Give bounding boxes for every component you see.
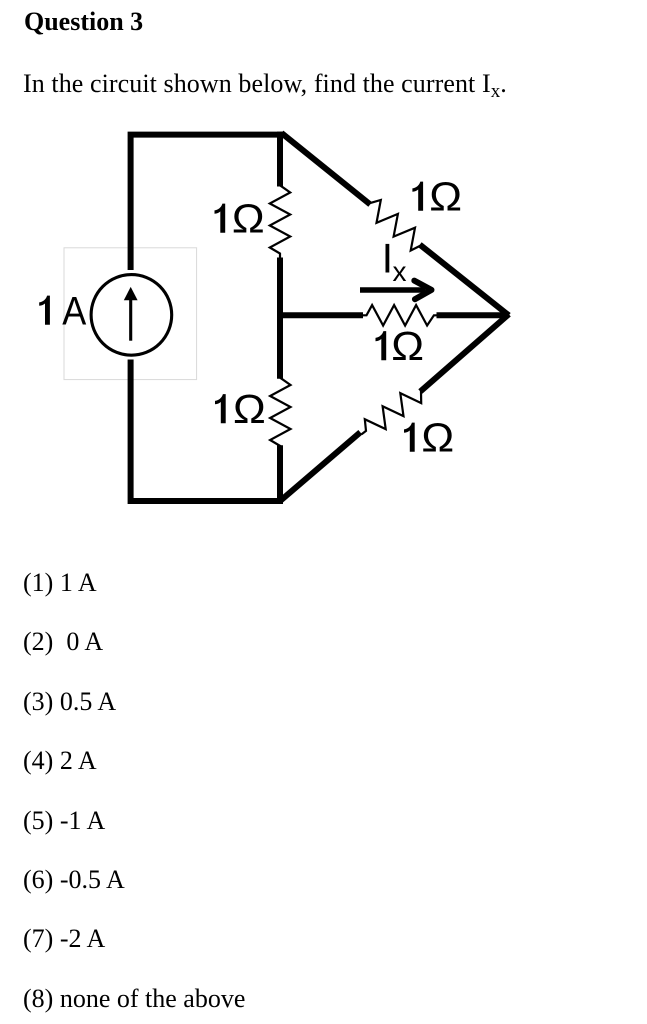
label 1-ohm R1: digit 1 <box>215 204 226 233</box>
current source arrow shaft <box>129 299 132 341</box>
label 1-ohm R2: digit 1 <box>215 394 226 423</box>
Ix current arrow shaft <box>360 287 425 292</box>
wire: middle horizontal left <box>280 312 363 318</box>
svg-text:Ω: Ω <box>232 196 265 241</box>
current source I1 circle <box>91 275 172 356</box>
resistor R4 (1 ohm, top-right diagonal) <box>369 200 421 251</box>
label 1-ohm R4 top right: digit 1 <box>412 182 423 211</box>
wire: top diagonal lower segment to apex <box>420 245 509 316</box>
label 1-ohm R5 bottom right: digit 1 <box>404 423 415 452</box>
label Ix current name: letter I <box>386 244 390 273</box>
svg-text:x: x <box>393 256 407 287</box>
wire: bottom diagonal lower segment <box>280 432 361 501</box>
svg-text:Ω: Ω <box>233 387 266 432</box>
resistor R2 (1 ohm, left vertical lower) <box>270 378 290 451</box>
Ix current arrow head <box>414 281 431 300</box>
svg-text:Ω: Ω <box>421 415 454 460</box>
selection box (faint) around current source <box>64 248 197 380</box>
label 1-ohm R3 middle: digit 1 <box>376 331 387 360</box>
wire: middle vertical upper segment <box>277 132 283 187</box>
wire: left wire lower + bottom wire <box>131 360 283 502</box>
wire: middle vertical lower segment <box>277 445 283 504</box>
answer options <box>23 570 97 596</box>
resistor R3 (1 ohm, middle horizontal) <box>362 305 437 325</box>
svg-text:Ω: Ω <box>391 324 424 369</box>
wire: top diagonal upper segment <box>282 133 371 204</box>
question text <box>23 71 507 97</box>
label 1A (source value): digit 1 <box>39 296 50 325</box>
resistor R1 (1 ohm, left vertical upper) <box>270 185 290 258</box>
wire: top-left loop (top wire + left wire upper) <box>131 135 283 270</box>
svg-text:Ω: Ω <box>429 174 462 219</box>
svg-text:A: A <box>62 290 87 334</box>
current source arrow head <box>124 287 138 300</box>
resistor R5 (1 ohm, bottom-right diagonal) <box>362 391 422 435</box>
title <box>24 9 143 35</box>
wire: bottom diagonal upper segment from apex <box>420 314 509 391</box>
wire: middle horizontal right to apex <box>437 312 509 318</box>
wire: middle vertical center segment <box>277 258 283 379</box>
